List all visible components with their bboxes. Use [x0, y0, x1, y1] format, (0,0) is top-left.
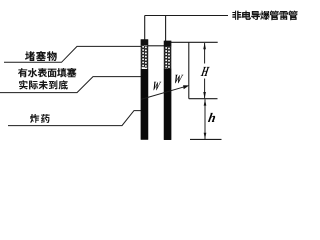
ground line between holes — [148, 45, 164, 47]
right borehole outline — [164, 41, 171, 139]
label: du-sai-wu (stemming) — [25, 51, 57, 61]
H top arrowhead — [203, 43, 206, 50]
detonating tube right vertical — [165, 16, 167, 43]
label: explosive — [30, 114, 50, 123]
H bottom arrowhead — [203, 92, 206, 99]
label: actually-not-to-bottom — [19, 80, 68, 89]
H dimension line upper segment — [204, 43, 206, 64]
ground line right of holes — [171, 41, 218, 43]
left borehole stemming stipple — [142, 45, 148, 67]
leader line: explosive — [8, 111, 141, 126]
svg-text:W: W — [172, 73, 184, 87]
blasting borehole diagram — [0, 0, 300, 144]
W burden arrow — [141, 86, 186, 99]
left borehole explosive charge — [141, 69, 148, 139]
label: non-electric detonating tube detonator — [232, 11, 297, 21]
left borehole top cap — [141, 39, 148, 45]
svg-text:h: h — [207, 110, 217, 125]
label: water-surface-fill — [18, 68, 76, 77]
svg-text:W: W — [151, 80, 162, 94]
right borehole explosive charge — [164, 69, 171, 140]
detonating tube left vertical — [144, 16, 146, 41]
right borehole stemming stipple — [165, 47, 171, 69]
h dimension line — [204, 99, 206, 139]
h bottom arrowhead — [204, 133, 207, 139]
free face vertical — [188, 42, 190, 98]
detonating tube horizontal line — [145, 15, 228, 17]
h top arrowhead — [204, 99, 207, 105]
left borehole outline — [141, 40, 148, 140]
H dimension line lower segment — [204, 79, 206, 99]
right borehole top cap — [164, 41, 171, 47]
bench floor line — [189, 98, 218, 100]
hole bottom level line — [190, 138, 222, 140]
svg-text:H: H — [199, 63, 211, 79]
leader line: not-to-bottom — [0, 77, 141, 93]
leader line: stemming label — [4, 46, 141, 62]
